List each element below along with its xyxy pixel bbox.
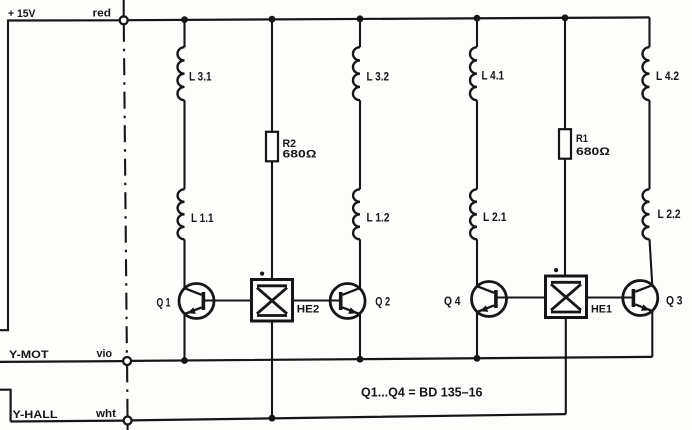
node Y-HALL boundary terminal: [124, 417, 132, 425]
wire Y-HALL rail: [0, 390, 566, 422]
inductor L1.1: [178, 189, 185, 239]
inductor L2.1: [470, 189, 477, 239]
wire R2 chain upper: [271, 19, 273, 132]
svg-text:Q 1: Q 1: [157, 297, 171, 309]
svg-text:L 4.1: L 4.1: [482, 71, 505, 83]
resistor R2: [266, 132, 278, 162]
svg-text:680Ω: 680Ω: [576, 146, 611, 158]
svg-text:L 2.1: L 2.1: [483, 212, 507, 224]
wire chain B upper: [359, 19, 361, 47]
wire stub above boundary terminal: [123, 0, 125, 16]
svg-text:red: red: [93, 7, 112, 19]
wire +15V top rail: [8, 17, 650, 20]
wire HE2 to Q2 base: [293, 299, 341, 301]
wire R1 to HE1: [564, 159, 566, 276]
svg-text:Q1...Q4 = BD 135–16: Q1...Q4 = BD 135–16: [361, 386, 483, 400]
svg-text:HE1: HE1: [591, 304, 612, 316]
svg-text:Q 4: Q 4: [444, 296, 461, 308]
svg-text:HE2: HE2: [297, 303, 320, 315]
svg-text:L 1.2: L 1.2: [367, 213, 390, 225]
inductor L1.2: [353, 189, 360, 239]
svg-text:Y-MOT: Y-MOT: [9, 349, 49, 361]
wire chain A upper: [183, 20, 185, 48]
node Y-MOT boundary terminal: [123, 357, 131, 365]
transistor Q3: [623, 281, 658, 316]
wire chain C upper: [476, 18, 478, 47]
node +15V boundary terminal: [120, 16, 128, 24]
wire HE2 down to Y-HALL: [271, 321, 273, 418]
svg-text:Q 2: Q 2: [375, 297, 390, 309]
hall element HE2: [252, 272, 293, 322]
node B (rail / R2 chain): [269, 16, 276, 23]
wire chain B middle: [359, 100, 361, 189]
hall element HE1: [546, 268, 587, 318]
transistor Q1: [179, 284, 214, 319]
wire chain D middle: [648, 100, 650, 189]
node C (rail / L3.2 chain): [357, 15, 364, 22]
wire chain D to Q3: [650, 239, 653, 285]
svg-text:680Ω: 680Ω: [283, 149, 318, 161]
node H (Y-MOT / Q4 emitter): [474, 355, 481, 362]
svg-text:vio: vio: [97, 348, 113, 360]
wire chain A to Q1: [183, 239, 185, 288]
node D (rail / L4.1 chain): [474, 15, 481, 22]
wire Q2 emitter down: [359, 314, 361, 359]
svg-text:L 3.2: L 3.2: [367, 71, 390, 83]
wire Q4 emitter down: [476, 312, 478, 359]
svg-text:L 4.2: L 4.2: [656, 71, 679, 83]
node F (Y-MOT / Q1 emitter): [181, 357, 188, 364]
wire Q1 base to HE2: [204, 299, 252, 301]
wire Q4 base to HE1: [496, 296, 546, 298]
wire HE1 down to Y-HALL corner: [565, 318, 567, 415]
wire chain B to Q2: [359, 239, 361, 288]
resistor R1: [559, 129, 571, 159]
node E (rail / R1 chain): [562, 14, 569, 21]
inductor L3.1: [178, 47, 185, 100]
svg-text:+ 15V: + 15V: [8, 8, 36, 20]
inductor L4.2: [643, 47, 650, 100]
wire Q3 emitter down to Y-MOT corner: [651, 311, 653, 357]
svg-text:L 3.1: L 3.1: [189, 71, 212, 83]
inductor L2.2: [643, 189, 650, 239]
inductor L3.2: [353, 47, 360, 100]
inductor L4.1: [470, 47, 477, 100]
svg-text:L 2.2: L 2.2: [658, 209, 681, 221]
wire Y-MOT rail: [0, 357, 652, 362]
wire Q1 emitter down: [183, 314, 185, 361]
transistor Q2: [330, 284, 365, 319]
transistor Q4: [472, 282, 507, 317]
motor boundary dash-dot line: [124, 25, 128, 430]
node G (Y-MOT / Q2 emitter): [357, 356, 364, 363]
wire +15V left drop to edge: [0, 20, 8, 331]
svg-text:L 1.1: L 1.1: [191, 213, 214, 225]
wire chain D upper: [648, 17, 650, 47]
svg-text:R1: R1: [576, 133, 588, 145]
node A (rail / L3.1 chain): [181, 16, 188, 23]
svg-text:wht: wht: [95, 408, 116, 420]
wire HE1 to Q3 base: [587, 296, 634, 298]
wire chain A middle: [183, 100, 185, 189]
svg-text:Q 3: Q 3: [666, 296, 683, 308]
wire chain C middle: [476, 100, 478, 189]
wire chain C to Q4: [476, 239, 478, 286]
node I (Y-HALL / HE2): [269, 415, 276, 422]
svg-text:Y-HALL: Y-HALL: [13, 409, 58, 421]
wire R2 to HE2: [271, 161, 273, 279]
wire R1 chain upper: [564, 18, 566, 129]
